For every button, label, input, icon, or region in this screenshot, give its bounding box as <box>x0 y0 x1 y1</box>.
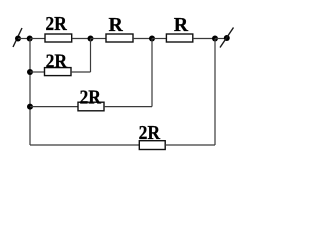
wire R4 right to corner <box>71 71 91 73</box>
node 2 junction dot <box>88 36 94 42</box>
node 1 junction dot <box>27 36 33 42</box>
node 3 junction dot <box>149 36 155 42</box>
bottom wire left segment <box>30 144 139 146</box>
resistor R3 body (R) <box>166 34 192 42</box>
node 6 junction dot (left bus row 3) <box>27 104 33 110</box>
right bus wire node 4 down to bottom <box>214 39 216 146</box>
wire corner up to node 3 <box>151 39 153 107</box>
resistor R1 body (2R) <box>45 34 72 42</box>
wire R2 to node 3 <box>133 38 152 40</box>
terminal A slash <box>13 28 22 47</box>
wire terminal A to node 1 <box>18 38 30 40</box>
svg-text:2R: 2R <box>46 51 68 73</box>
terminal B slash <box>220 28 234 48</box>
wire node 4 to terminal B <box>215 38 227 40</box>
svg-text:2R: 2R <box>139 122 161 144</box>
wire node 2 to resistor R2 <box>91 38 107 40</box>
wire node 5 to resistor R4 <box>30 71 45 73</box>
node 5 junction dot (left bus row 2) <box>27 69 33 75</box>
wire node 1 to resistor R1 <box>30 38 45 40</box>
bottom wire right segment <box>165 144 215 146</box>
wire corner up to node 2 <box>90 39 92 73</box>
resistor R4 body (2R) <box>45 68 72 76</box>
svg-text:R: R <box>109 14 124 36</box>
svg-text:2R: 2R <box>80 87 102 109</box>
wire R1 to node 2 <box>72 38 91 40</box>
resistor R5 body (2R) <box>78 102 104 111</box>
terminal A dot <box>15 36 21 42</box>
resistor R6 body (2R) <box>139 141 165 150</box>
wire node 6 to resistor R5 <box>30 106 78 108</box>
svg-text:R: R <box>174 14 189 36</box>
left bus wire node 1 down to bottom <box>29 39 31 146</box>
wire node 3 to resistor R3 <box>152 38 166 40</box>
resistor R2 body (R) <box>106 34 133 42</box>
wire R5 right to corner <box>104 106 152 108</box>
node 4 junction dot <box>212 36 218 42</box>
terminal B dot <box>224 35 230 41</box>
wire R3 to node 4 <box>193 38 215 40</box>
svg-text:2R: 2R <box>45 13 67 35</box>
